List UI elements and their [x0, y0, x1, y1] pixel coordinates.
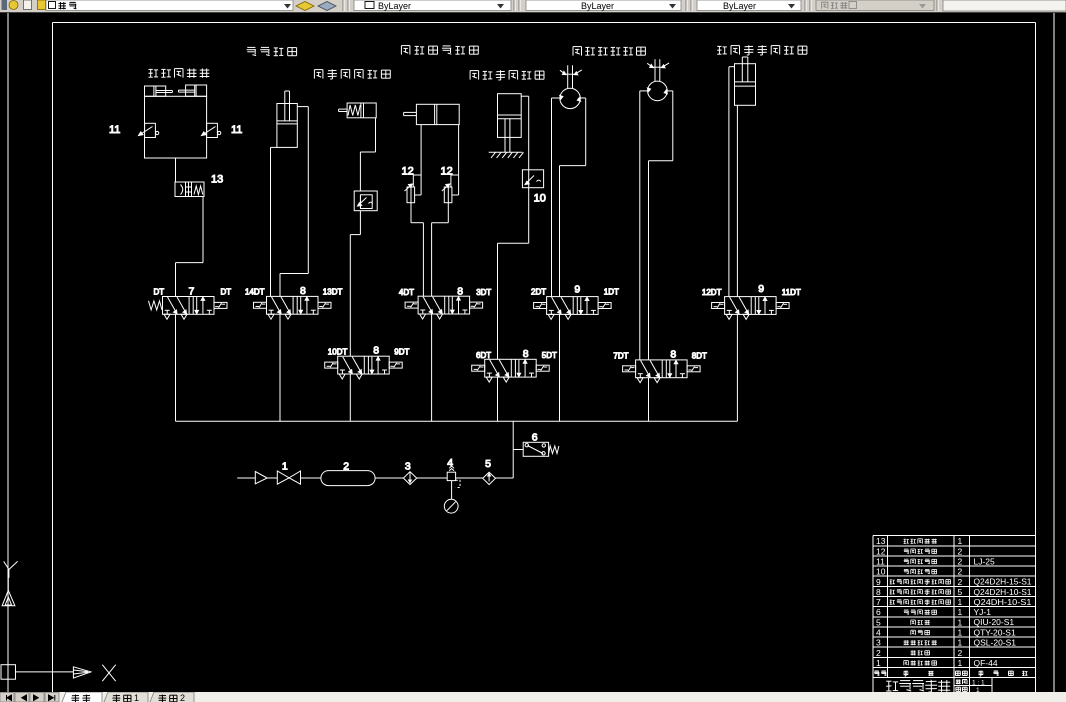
svg-text:1: 1 — [958, 628, 963, 638]
valve: air filter 3 — [403, 472, 416, 485]
node: BOM row 2 — [876, 648, 963, 658]
wire: valve 9 (12DT/11DT) to manifold — [736, 314, 738, 421]
valve: solenoid valve 9 (12DT/11DT) — [712, 297, 790, 320]
svg-text:12DT: 12DT — [702, 288, 722, 297]
svg-text:13: 13 — [211, 174, 223, 186]
svg-text:2DT: 2DT — [531, 288, 546, 297]
wire: valve 8 (4DT/3DT) to manifold — [431, 314, 433, 421]
valve: solenoid valve 8 (14DT/13DT) — [254, 296, 332, 319]
svg-text:8: 8 — [670, 349, 676, 361]
svg-text:13DT: 13DT — [323, 288, 343, 297]
svg-text:10: 10 — [876, 567, 886, 577]
svg-text:3: 3 — [876, 638, 881, 648]
wire: paper sheet right edge — [1053, 13, 1055, 692]
node label: shou-bi-hui-zhuan-qi-gang (arm rotary cylinder) — [573, 47, 645, 56]
svg-text:1: 1 — [876, 658, 881, 668]
svg-text:11DT: 11DT — [782, 288, 801, 297]
node: BOM table grid — [873, 536, 1036, 692]
wire: valve 8 (14DT/13DT) to manifold — [279, 314, 281, 421]
wire: telescopic cylinder cap-end port — [413, 125, 421, 195]
svg-text:Q24D2H-10-S1: Q24D2H-10-S1 — [974, 587, 1032, 597]
wire: clamp cylinder to speed controller — [360, 118, 375, 191]
cylinder: finger clamp cylinder (spring return) — [339, 103, 377, 118]
valve: pressure control valve 6 — [513, 442, 559, 456]
wire: storage cylinder bottom port to valve 9 (11DT side) — [736, 105, 738, 296]
svg-text:QIU-20-S1: QIU-20-S1 — [974, 617, 1015, 627]
svg-text:12: 12 — [402, 166, 414, 178]
wire — [267, 477, 277, 479]
svg-text:10DT: 10DT — [328, 348, 348, 357]
node: BOM row 1 — [876, 658, 998, 668]
valve: manual shut-off valve 1 — [277, 471, 300, 484]
valve: pressure regulator 4 — [447, 466, 460, 488]
svg-text:6: 6 — [532, 432, 538, 444]
svg-text:1: 1 — [282, 461, 288, 473]
valve: solenoid valve 7 (spring return) — [148, 297, 227, 320]
valve: one-way throttle 12 (right) — [442, 184, 452, 203]
svg-text:1 : 1: 1 : 1 — [972, 680, 985, 687]
svg-text:1DT: 1DT — [604, 288, 619, 297]
wire: throttle 13 to valve 7 — [176, 197, 204, 297]
node: UCS icon X axis — [16, 665, 116, 682]
svg-text:2: 2 — [958, 648, 963, 658]
svg-text:7: 7 — [189, 286, 195, 298]
svg-text:8: 8 — [523, 348, 529, 360]
svg-text:2: 2 — [343, 461, 349, 473]
wire — [456, 477, 483, 479]
node label: shou-bi-sheng-jiang-qi-gang (arm lift cylinder) — [470, 70, 544, 80]
node: BOM row 5 — [876, 617, 1014, 627]
wire: valve 9 (2DT/1DT) to manifold — [559, 314, 561, 421]
node: buffer body box — [145, 96, 207, 158]
svg-text:ByLayer: ByLayer — [581, 1, 614, 11]
svg-text:QF-44: QF-44 — [974, 658, 998, 668]
wire: air inlet line — [237, 477, 255, 479]
svg-text:8: 8 — [300, 285, 306, 297]
wire — [301, 477, 321, 479]
node: BOM row 7 — [876, 597, 1032, 607]
svg-text:9: 9 — [758, 283, 764, 295]
svg-text:ByLayer: ByLayer — [378, 1, 411, 11]
node label: shou-zhi-jia-jin-qi-gang (finger clamp cylinder) — [314, 69, 390, 79]
svg-text:8: 8 — [373, 345, 379, 357]
wire: stop cylinder top port to valve 8 (13DT side) — [280, 107, 308, 297]
valve: throttle check valve 11 left — [139, 123, 159, 137]
svg-text:9: 9 — [876, 577, 881, 587]
meter: pressure gauge — [444, 499, 458, 513]
svg-text:ByLayer: ByLayer — [723, 1, 756, 11]
svg-text:1: 1 — [958, 597, 963, 607]
wire: throttle 12 left to valve 8 (4DT) — [411, 203, 423, 297]
valve: one-way throttle 12 (left) — [405, 184, 415, 203]
node: BOM header row — [874, 671, 1027, 676]
wire: paper sheet left edge — [7, 13, 9, 692]
wire: speed controller to valve 8 (10DT) — [350, 211, 360, 357]
svg-text:14DT: 14DT — [245, 288, 265, 297]
valve: solenoid valve 8 (10DT/9DT) — [325, 356, 403, 379]
cylinder: storage stepping cylinder — [735, 57, 756, 105]
node label: hui-zhuan-huan-chong-qi (rotary buffer) — [149, 68, 210, 77]
svg-text:DT: DT — [154, 288, 165, 297]
valve: solenoid valve 8 (4DT/3DT) — [405, 296, 483, 319]
wire: rotary actuator 2 left port to valve 8 (7DT) — [640, 91, 648, 360]
svg-text:5: 5 — [958, 587, 963, 597]
svg-text:9: 9 — [574, 284, 580, 296]
cylinder: buffer right damper — [179, 85, 207, 96]
svg-text:6: 6 — [876, 607, 881, 617]
svg-text:13: 13 — [876, 536, 886, 546]
node label: qi-ya-xi-tong-tu (pneumatic system diagram title) — [886, 680, 950, 692]
valve: one-way throttle 10 — [522, 170, 543, 188]
node: UCS icon Y axis — [2, 561, 18, 605]
cylinder: arm lift cylinder — [498, 94, 522, 153]
wire: valve 8 (6DT/5DT) to manifold — [497, 377, 499, 421]
svg-text:7: 7 — [876, 597, 881, 607]
wire: throttle 12 right to valve 8 (3DT side) — [432, 203, 449, 297]
svg-text:Q24D2H-15-S1: Q24D2H-15-S1 — [974, 577, 1032, 587]
node: BOM row 9 — [876, 577, 1032, 587]
node: BOM row 8 — [876, 587, 1032, 597]
wire: storage cylinder side port to valve 9 (12DT) — [729, 67, 735, 297]
svg-text:1: 1 — [958, 617, 963, 627]
svg-text:12: 12 — [441, 166, 453, 178]
svg-text:4DT: 4DT — [399, 288, 414, 297]
wire: valve 8 (7DT/8DT) to manifold — [648, 378, 650, 422]
wire: throttle 10 to valve 8 (6DT) — [498, 188, 529, 360]
svg-text:9DT: 9DT — [394, 348, 409, 357]
node: air source arrow — [255, 472, 267, 484]
svg-text:YJ-1: YJ-1 — [974, 607, 992, 617]
ground: lift cylinder rod anchor — [489, 152, 524, 158]
valve: solenoid valve 8 (7DT/8DT) — [623, 360, 701, 383]
svg-text:2: 2 — [958, 577, 963, 587]
svg-text:1: 1 — [958, 607, 963, 617]
svg-text:8: 8 — [457, 286, 463, 298]
svg-text:1: 1 — [958, 658, 963, 668]
node: BOM row 3 — [876, 638, 1016, 648]
node: BOM row 6 — [876, 607, 991, 617]
wire: supply manifold bus — [176, 420, 738, 422]
svg-text:6DT: 6DT — [476, 351, 491, 360]
toolbar (cropped AutoCAD layers/properties bars) — [0, 0, 1066, 13]
node: BOM row 13 — [876, 536, 963, 546]
svg-text:8DT: 8DT — [692, 352, 707, 361]
svg-text:10: 10 — [534, 193, 546, 205]
valve: lubricator 5 — [483, 472, 496, 484]
wire: rotary actuator 1 right port to valve 9 (1DT side) — [560, 98, 586, 297]
node: BOM row 12 — [876, 546, 963, 556]
svg-text:DT: DT — [221, 288, 232, 297]
node label: dang-kuai-qi-gang (stop cylinder) — [247, 47, 297, 55]
node label: chu-liao-cang-bu-jin-qi-gang (storage stepping cylinder) — [717, 45, 807, 55]
svg-text:8: 8 — [876, 587, 881, 597]
valve: throttle check valve 11 right — [202, 123, 221, 137]
svg-text:1: 1 — [958, 638, 963, 648]
svg-text:LJ-25: LJ-25 — [974, 556, 996, 566]
svg-text:4: 4 — [876, 628, 881, 638]
node: BOM row 4 — [876, 627, 1016, 637]
svg-text:QSL-20-S1: QSL-20-S1 — [974, 638, 1017, 648]
cylinder: buffer left damper — [145, 86, 173, 96]
svg-text:2: 2 — [180, 693, 185, 702]
svg-text:3DT: 3DT — [476, 288, 491, 297]
svg-text:1: 1 — [958, 536, 963, 546]
node label: shou-bi-shen-suo-qi-gang (arm telescopic cylinder) — [401, 46, 478, 55]
node: BOM row 10 — [876, 567, 963, 577]
wire: manifold riser to air service line — [512, 421, 514, 478]
wire: lift cylinder top port to throttle 10 — [521, 96, 529, 170]
wire: valve 8 (10DT/9DT) to manifold — [349, 374, 351, 421]
valve: solenoid valve 9 (2DT/1DT) — [534, 297, 612, 320]
wire: regulator to gauge — [451, 481, 453, 500]
svg-text:2: 2 — [958, 557, 963, 567]
valve: solenoid valve 8 (6DT/5DT) — [472, 359, 550, 382]
svg-text:2: 2 — [958, 567, 963, 577]
wire — [496, 477, 514, 479]
svg-text:3: 3 — [405, 461, 411, 473]
model/layout tab bar — [0, 692, 1066, 702]
wire: telescopic cylinder rod-end port — [451, 125, 459, 195]
wire: buffer body to throttle 13 — [175, 158, 177, 182]
svg-text:7DT: 7DT — [613, 352, 628, 361]
cylinder: stop block cylinder — [277, 91, 297, 147]
wire: rotary actuator 1 left port to valve 9 (2DT) — [552, 98, 560, 297]
svg-text:Q24DH-10-S1: Q24DH-10-S1 — [974, 597, 1032, 607]
node: BOM row 11 — [876, 556, 995, 566]
svg-text:11: 11 — [231, 124, 242, 136]
svg-text:2: 2 — [958, 546, 963, 556]
wire: valve 7 to manifold — [175, 314, 177, 421]
wire: rotary actuator 2 right port to valve 8 (8DT side) — [649, 91, 673, 360]
valve: one-way speed controller (clamp line) — [354, 191, 377, 211]
motor: storage rotary actuator — [647, 59, 669, 100]
node: air receiver tank 2 — [321, 471, 375, 486]
cylinder: arm telescopic cylinder — [404, 104, 460, 124]
wire — [417, 477, 448, 479]
motor: arm rotary actuator — [560, 65, 582, 108]
svg-text:11: 11 — [876, 557, 885, 567]
valve: one-way throttle 13 — [175, 182, 204, 197]
svg-text:5: 5 — [485, 458, 491, 470]
svg-text:1: 1 — [134, 693, 139, 702]
node: scale cell (bi-li 1:1) — [956, 679, 985, 694]
node: UCS icon origin box — [1, 665, 16, 680]
svg-text:5DT: 5DT — [542, 351, 557, 360]
wire — [375, 477, 403, 479]
svg-text:4: 4 — [447, 457, 453, 469]
wire: stop cylinder bottom port to valve 8 (14DT) — [271, 147, 277, 296]
svg-text:QTY-20-S1: QTY-20-S1 — [974, 627, 1016, 637]
svg-text:2: 2 — [876, 648, 881, 658]
svg-text:12: 12 — [876, 546, 886, 556]
svg-text:5: 5 — [876, 617, 881, 627]
svg-text:11: 11 — [109, 124, 120, 136]
